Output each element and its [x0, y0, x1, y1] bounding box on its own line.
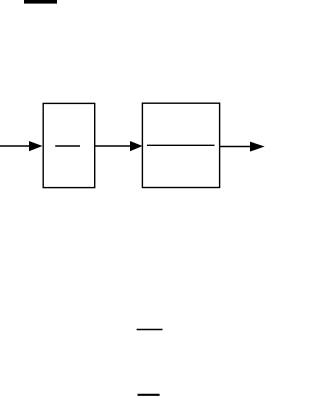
- fraction bar (lower equation): [137, 329, 163, 331]
- fraction bar inside block G1: [55, 145, 80, 147]
- wire: input line: [0, 145, 31, 147]
- block G1 (left box): [43, 103, 94, 187]
- wire: between blocks: [95, 145, 132, 147]
- arrowhead: middle arrow: [130, 141, 143, 151]
- wire: output line: [220, 146, 252, 148]
- block G2 (right box): [142, 103, 219, 187]
- arrowhead: output arrow: [250, 142, 265, 152]
- fraction bar (bottom equation, near page edge): [138, 394, 160, 396]
- arrowhead: input arrow: [29, 141, 43, 151]
- fraction bar inside block G2: [147, 144, 215, 146]
- clipped fraction bar (top): [24, 0, 57, 4]
